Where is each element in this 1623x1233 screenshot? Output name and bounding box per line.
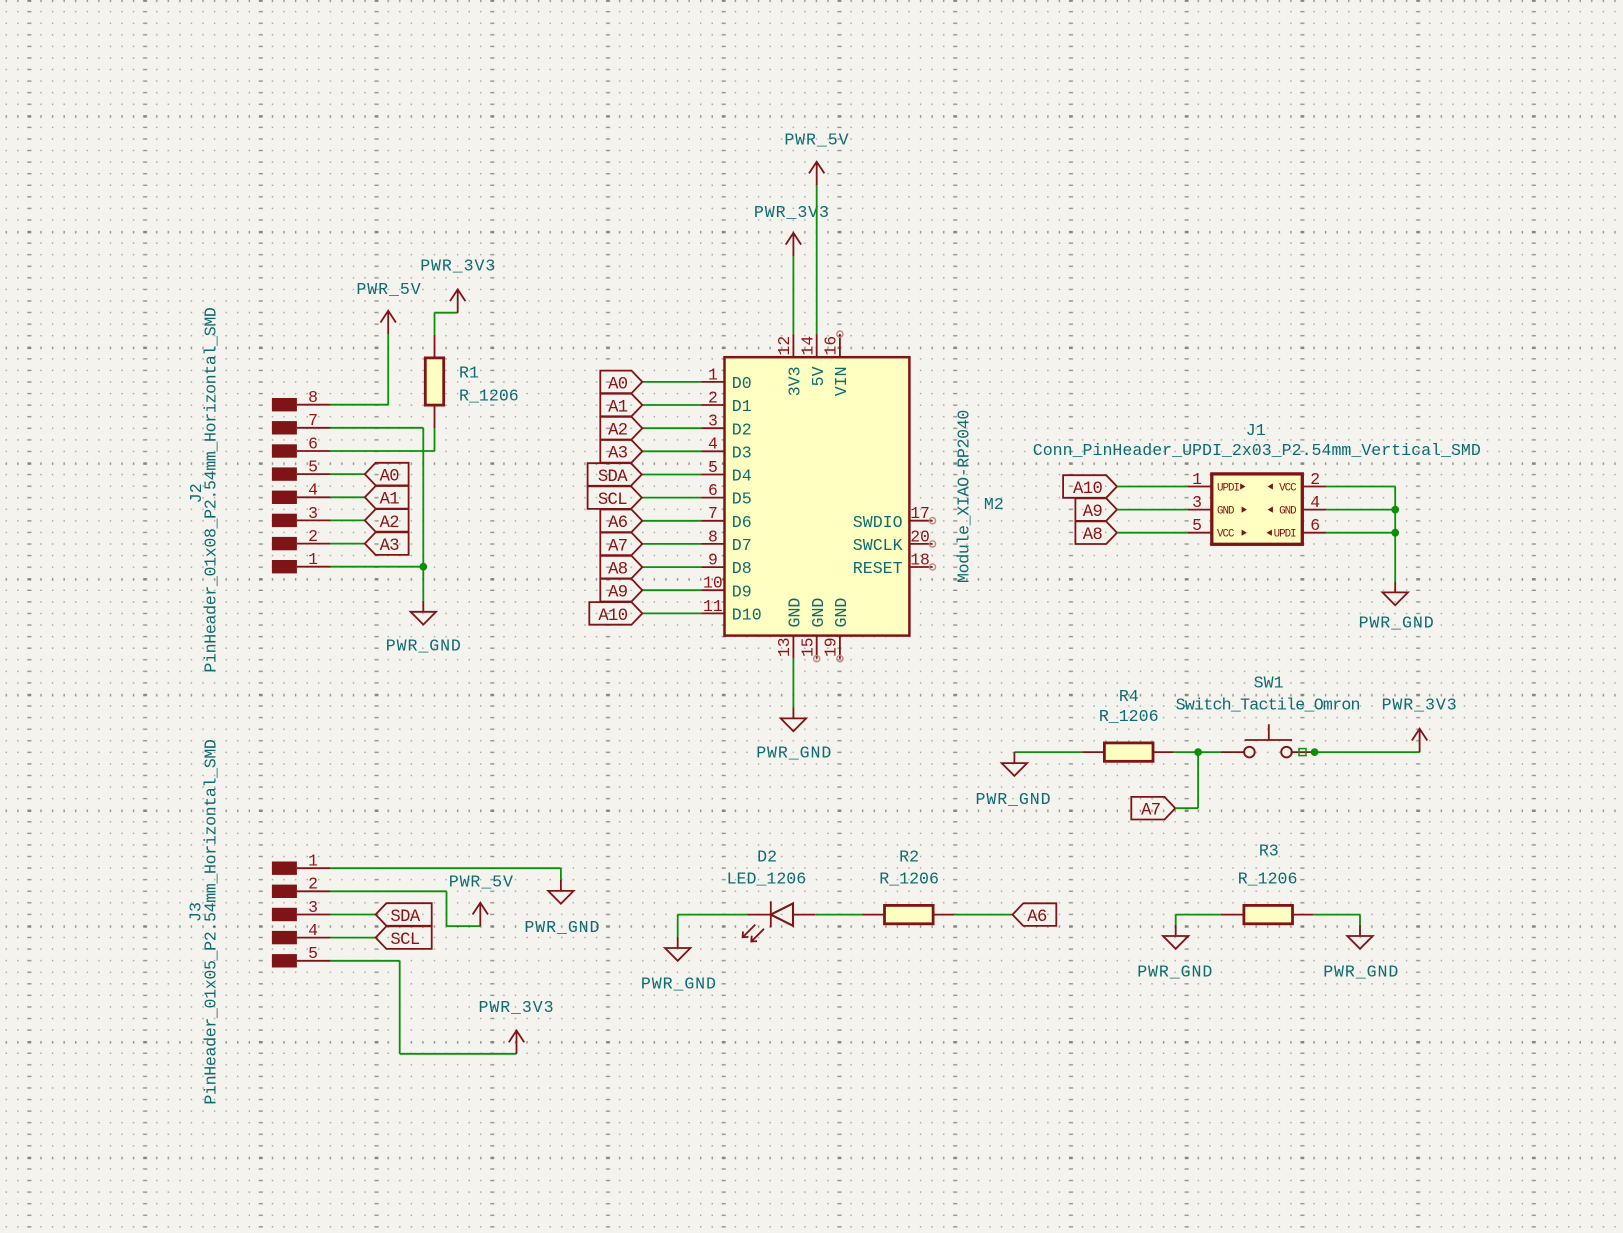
- svg-text:A7: A7: [1141, 802, 1160, 821]
- svg-text:SCL: SCL: [598, 491, 627, 510]
- svg-text:D5: D5: [732, 490, 752, 509]
- svg-text:5: 5: [308, 458, 318, 477]
- svg-text:2: 2: [1310, 470, 1320, 489]
- svg-text:SW1: SW1: [1254, 673, 1284, 692]
- svg-text:UPDI: UPDI: [1274, 529, 1296, 541]
- svg-text:VCC: VCC: [1217, 529, 1235, 541]
- svg-text:UPDI: UPDI: [1217, 482, 1239, 494]
- svg-text:8: 8: [708, 527, 718, 546]
- svg-text:R4: R4: [1119, 687, 1139, 706]
- svg-text:6: 6: [1310, 516, 1320, 535]
- svg-text:4: 4: [708, 435, 718, 454]
- svg-text:D4: D4: [732, 467, 752, 486]
- svg-text:D0: D0: [732, 374, 752, 393]
- svg-text:7: 7: [708, 504, 718, 523]
- svg-text:D6: D6: [732, 513, 752, 532]
- svg-text:6: 6: [708, 481, 718, 500]
- svg-text:3: 3: [308, 504, 318, 523]
- svg-text:3: 3: [308, 898, 318, 917]
- svg-text:PWR_GND: PWR_GND: [756, 744, 832, 763]
- svg-text:PWR_GND: PWR_GND: [1359, 614, 1435, 633]
- svg-text:PWR_GND: PWR_GND: [641, 975, 717, 994]
- svg-text:D9: D9: [732, 582, 752, 601]
- svg-text:5: 5: [708, 458, 718, 477]
- svg-text:3V3: 3V3: [786, 366, 805, 396]
- svg-text:PWR_GND: PWR_GND: [386, 637, 462, 656]
- svg-text:RESET: RESET: [853, 559, 903, 578]
- svg-text:PinHeader_01x05_P2.54mm_Horizo: PinHeader_01x05_P2.54mm_Horizontal_SMD: [201, 739, 220, 1104]
- svg-text:Module_XIAO-RP2040: Module_XIAO-RP2040: [955, 410, 974, 583]
- svg-text:D2: D2: [757, 847, 777, 866]
- svg-text:5: 5: [308, 944, 318, 963]
- svg-text:D8: D8: [732, 559, 752, 578]
- svg-text:A0: A0: [608, 375, 628, 394]
- svg-text:1: 1: [708, 365, 718, 384]
- svg-text:16: 16: [822, 336, 841, 356]
- svg-text:6: 6: [308, 434, 318, 453]
- svg-text:SWCLK: SWCLK: [853, 536, 903, 555]
- svg-text:J1: J1: [1246, 421, 1266, 440]
- svg-text:3: 3: [708, 412, 718, 431]
- svg-text:LED_1206: LED_1206: [727, 870, 807, 889]
- svg-text:18: 18: [910, 550, 930, 569]
- svg-text:D2: D2: [732, 420, 752, 439]
- svg-text:20: 20: [910, 527, 930, 546]
- svg-text:SDA: SDA: [598, 468, 628, 487]
- svg-text:PWR_GND: PWR_GND: [975, 790, 1051, 809]
- svg-text:R1: R1: [459, 364, 479, 383]
- svg-text:13: 13: [775, 637, 794, 657]
- svg-text:A1: A1: [380, 491, 400, 510]
- svg-text:D10: D10: [732, 606, 762, 625]
- svg-text:SDA: SDA: [390, 908, 420, 927]
- svg-text:A2: A2: [380, 514, 400, 533]
- svg-text:PinHeader_01x08_P2.54mm_Horizo: PinHeader_01x08_P2.54mm_Horizontal_SMD: [201, 307, 220, 672]
- svg-text:D3: D3: [732, 443, 752, 462]
- svg-text:2: 2: [708, 388, 718, 407]
- svg-text:2: 2: [308, 527, 318, 546]
- svg-text:R_1206: R_1206: [459, 387, 519, 406]
- svg-text:GND: GND: [832, 598, 851, 628]
- svg-text:Conn_PinHeader_UPDI_2x03_P2.54: Conn_PinHeader_UPDI_2x03_P2.54mm_Vertica…: [1033, 441, 1481, 460]
- svg-text:D7: D7: [732, 536, 752, 555]
- svg-text:A10: A10: [598, 607, 627, 626]
- svg-text:PWR_5V: PWR_5V: [356, 280, 421, 299]
- svg-text:A3: A3: [380, 537, 400, 556]
- svg-text:1: 1: [308, 550, 318, 569]
- svg-text:12: 12: [775, 336, 794, 356]
- svg-text:A9: A9: [1083, 503, 1103, 522]
- svg-text:VIN: VIN: [832, 366, 851, 396]
- svg-text:SWDIO: SWDIO: [853, 513, 903, 532]
- svg-text:PWR_3V3: PWR_3V3: [754, 203, 830, 222]
- svg-text:19: 19: [822, 637, 841, 657]
- svg-text:PWR_5V: PWR_5V: [784, 131, 849, 150]
- svg-text:Switch_Tactile_Omron: Switch_Tactile_Omron: [1176, 695, 1360, 714]
- svg-text:GND: GND: [1217, 506, 1234, 518]
- svg-text:R_1206: R_1206: [1238, 870, 1298, 889]
- svg-text:A8: A8: [608, 561, 628, 580]
- svg-text:PWR_3V3: PWR_3V3: [420, 257, 496, 276]
- svg-text:A6: A6: [1027, 908, 1047, 927]
- svg-text:14: 14: [798, 336, 817, 356]
- svg-text:11: 11: [703, 597, 723, 616]
- svg-text:PWR_GND: PWR_GND: [1137, 962, 1213, 981]
- svg-text:A8: A8: [1083, 526, 1103, 545]
- svg-text:4: 4: [308, 921, 318, 940]
- svg-text:R3: R3: [1259, 842, 1279, 861]
- svg-text:A3: A3: [608, 445, 628, 464]
- svg-text:A7: A7: [608, 537, 627, 556]
- svg-text:R2: R2: [899, 847, 919, 866]
- svg-text:GND: GND: [809, 598, 828, 628]
- svg-text:17: 17: [910, 504, 930, 523]
- svg-text:10: 10: [703, 574, 723, 593]
- svg-text:5V: 5V: [809, 366, 828, 386]
- svg-text:PWR_5V: PWR_5V: [449, 873, 514, 892]
- svg-text:PWR_3V3: PWR_3V3: [478, 998, 554, 1017]
- svg-text:PWR_GND: PWR_GND: [524, 918, 600, 937]
- svg-text:A10: A10: [1073, 480, 1102, 499]
- svg-text:15: 15: [798, 637, 817, 657]
- svg-text:GND: GND: [786, 598, 805, 628]
- svg-text:4: 4: [308, 481, 318, 500]
- svg-text:5: 5: [1192, 516, 1202, 535]
- svg-text:3: 3: [1192, 493, 1202, 512]
- svg-text:A1: A1: [608, 398, 628, 417]
- svg-text:4: 4: [1310, 493, 1320, 512]
- svg-text:PWR_3V3: PWR_3V3: [1382, 695, 1458, 714]
- svg-text:1: 1: [308, 852, 318, 871]
- svg-text:7: 7: [308, 411, 318, 430]
- svg-text:A9: A9: [608, 584, 628, 603]
- svg-text:M2: M2: [984, 495, 1004, 514]
- svg-text:VCC: VCC: [1279, 482, 1297, 494]
- svg-text:A2: A2: [608, 422, 628, 441]
- svg-text:A6: A6: [608, 514, 628, 533]
- svg-text:R_1206: R_1206: [879, 870, 939, 889]
- svg-text:9: 9: [708, 551, 718, 570]
- svg-text:D1: D1: [732, 397, 752, 416]
- svg-text:GND: GND: [1279, 506, 1296, 518]
- svg-text:SCL: SCL: [390, 931, 419, 950]
- svg-text:A0: A0: [380, 468, 400, 487]
- svg-text:R_1206: R_1206: [1099, 707, 1159, 726]
- svg-text:8: 8: [308, 388, 318, 407]
- svg-text:2: 2: [308, 875, 318, 894]
- svg-text:1: 1: [1192, 470, 1202, 489]
- svg-text:PWR_GND: PWR_GND: [1323, 962, 1399, 981]
